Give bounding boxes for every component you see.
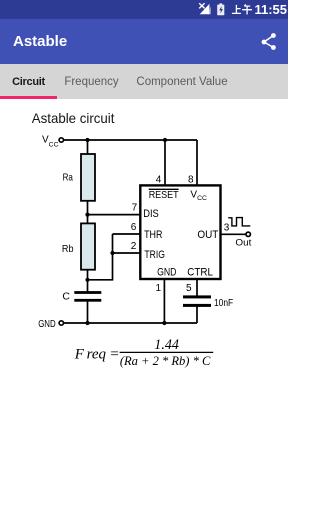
wire THR pin 6 (113, 233, 141, 235)
wire C2 to ground rail (196, 307, 198, 324)
svg-text:6: 6 (131, 222, 137, 233)
wire junction to capacitor C (87, 280, 89, 292)
wire pin 1 to ground (163, 278, 165, 323)
wire C to ground rail (87, 302, 89, 324)
svg-text:1: 1 (155, 283, 161, 294)
heading (0, 100, 288, 130)
battery icon (219, 3, 222, 5)
svg-text:8: 8 (188, 175, 194, 186)
wire pin 5 to C2 (196, 278, 198, 296)
svg-text:Ra: Ra (63, 172, 73, 183)
share icon (255, 27, 283, 55)
svg-text:Rb: Rb (62, 244, 74, 255)
wire TRIG pin 2 (113, 252, 141, 254)
tab Component Value (126, 76, 238, 88)
tab Frequency (57, 76, 126, 88)
wire junction to Rb (87, 215, 89, 224)
svg-text:7: 7 (132, 203, 138, 214)
status bar (0, 0, 288, 19)
wire DIS pin 7 (88, 214, 141, 216)
status bar icons + time (svg) (0, 0, 288, 19)
svg-text:5: 5 (186, 283, 192, 294)
svg-text:Freq=: Freq= (74, 347, 120, 363)
svg-text:Out: Out (235, 237, 251, 248)
junction TRIG branch (110, 251, 114, 255)
ground terminal (59, 321, 63, 325)
op IC U1 555 body (140, 185, 220, 279)
svg-text:CTRL: CTRL (187, 266, 213, 278)
junction Rb-C-branch (85, 278, 89, 282)
capacitor C plate top (74, 291, 101, 294)
Vcc terminal (59, 138, 63, 142)
wire Vcc to Ra (87, 140, 89, 155)
resistor Ra (81, 154, 95, 201)
capacitor C plate bottom (74, 299, 101, 302)
signal triangle icon (200, 4, 210, 14)
wire Ra to DIS junction (87, 201, 89, 216)
tab Circuit (selected) (0, 76, 57, 88)
resistor Rb (81, 223, 95, 269)
wire OUT pin 3 (221, 233, 247, 235)
RESET overline (149, 188, 179, 190)
app bar (0, 19, 288, 64)
tab bar (0, 64, 288, 99)
app bar title (13, 33, 67, 50)
svg-text:10nF: 10nF (214, 298, 233, 309)
clock text 上午 (drawn strokes) (232, 4, 252, 14)
svg-text:RESET: RESET (149, 190, 180, 201)
junction pin1-ground (162, 321, 166, 325)
svg-text:TRIG: TRIG (144, 249, 165, 261)
svg-text:VCC: VCC (42, 135, 59, 149)
wire pin 4 (164, 140, 166, 186)
svg-text:(Ra + 2 * Rb) * C: (Ra + 2 * Rb) * C (120, 354, 211, 368)
formula fraction bar (120, 351, 214, 353)
svg-text:4: 4 (156, 175, 162, 186)
wire pin 8 (196, 140, 198, 186)
svg-text:GND: GND (157, 266, 177, 278)
svg-text:THR: THR (144, 229, 163, 241)
wire Vcc rail (64, 139, 198, 141)
Out terminal (246, 232, 250, 236)
capacitor C2 plate bottom (183, 304, 211, 307)
svg-text:1.44: 1.44 (154, 337, 179, 353)
junction Vcc-Ra (85, 138, 89, 142)
wire THR-TRIG vertical (112, 234, 114, 281)
junction Vcc-pin4 (163, 138, 167, 142)
svg-text:C: C (62, 291, 70, 302)
wire lower junction to THR/TRIG branch (88, 279, 113, 281)
wire Rb to lower junction (87, 270, 89, 281)
svg-text:DIS: DIS (143, 208, 159, 220)
svg-text:OUT: OUT (197, 229, 218, 241)
capacitor C2 plate top (183, 295, 211, 298)
svg-text:GND: GND (38, 319, 56, 330)
wire ground rail (64, 322, 198, 324)
svg-text:2: 2 (131, 241, 137, 252)
square wave symbol (228, 218, 250, 226)
svg-text:3: 3 (224, 222, 230, 233)
tab indicator (0, 96, 57, 99)
junction Ra-Rb-DIS (85, 213, 89, 217)
junction C-ground (85, 321, 89, 325)
